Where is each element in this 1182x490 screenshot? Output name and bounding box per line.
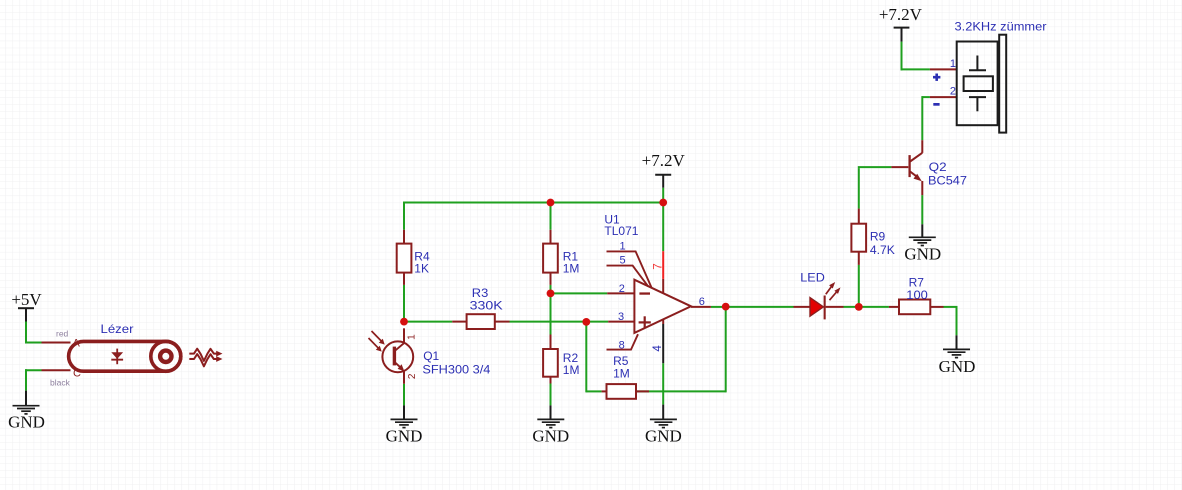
svg-text:3.2KHz zümmer: 3.2KHz zümmer	[955, 20, 1047, 34]
svg-text:BC547: BC547	[928, 173, 967, 187]
svg-text:5: 5	[620, 254, 626, 266]
svg-text:TL071: TL071	[604, 224, 638, 238]
svg-text:red: red	[56, 328, 69, 338]
svg-text:4: 4	[652, 345, 664, 352]
svg-text:Lézer: Lézer	[101, 322, 134, 336]
svg-text:GND: GND	[645, 427, 682, 446]
svg-text:GND: GND	[904, 244, 941, 263]
svg-text:SFH300 3/4: SFH300 3/4	[422, 362, 490, 376]
svg-text:+5V: +5V	[11, 290, 42, 309]
svg-text:1M: 1M	[563, 363, 580, 377]
svg-text:1M: 1M	[563, 261, 580, 275]
svg-text:+7.2V: +7.2V	[879, 5, 923, 24]
svg-text:1: 1	[620, 241, 626, 253]
svg-text:2: 2	[407, 373, 418, 379]
svg-text:4.7K: 4.7K	[870, 243, 895, 257]
svg-text:7: 7	[652, 263, 664, 269]
svg-text:330K: 330K	[470, 298, 503, 312]
svg-text:GND: GND	[8, 412, 45, 431]
svg-text:3: 3	[618, 311, 624, 323]
svg-text:2: 2	[619, 283, 625, 295]
svg-text:R9: R9	[870, 230, 886, 244]
svg-text:Q1: Q1	[423, 349, 439, 363]
svg-text:GND: GND	[939, 357, 976, 376]
svg-text:100: 100	[906, 288, 928, 302]
svg-text:1: 1	[950, 58, 956, 70]
svg-text:GND: GND	[532, 427, 569, 446]
svg-text:8: 8	[619, 339, 625, 351]
svg-text:LED: LED	[800, 271, 825, 285]
svg-text:1M: 1M	[613, 367, 630, 381]
svg-text:6: 6	[699, 296, 705, 308]
svg-text:black: black	[50, 378, 71, 388]
svg-text:Q2: Q2	[929, 160, 947, 174]
svg-text:1: 1	[407, 334, 418, 340]
svg-text:1K: 1K	[414, 261, 429, 275]
svg-text:A: A	[73, 338, 81, 350]
svg-text:GND: GND	[386, 427, 423, 446]
svg-text:2: 2	[950, 86, 956, 98]
svg-text:C: C	[73, 367, 81, 379]
svg-text:+7.2V: +7.2V	[642, 151, 686, 170]
